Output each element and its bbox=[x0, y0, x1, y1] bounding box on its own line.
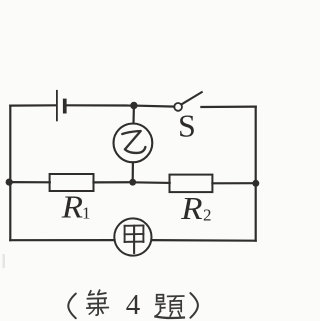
wire battery to node A bbox=[67, 104, 134, 106]
svg-text:S: S bbox=[178, 108, 196, 144]
caption: fullwidth left parenthesis bbox=[68, 294, 76, 319]
battery B1 positive plate bbox=[56, 91, 58, 121]
svg-text:1: 1 bbox=[82, 204, 91, 223]
wire meter Yi to center node bbox=[132, 162, 134, 182]
wire bottom right segment bbox=[152, 239, 256, 242]
switch S lever (open) bbox=[181, 92, 201, 104]
wire R2 to right dot bbox=[212, 182, 255, 184]
wire node A to switch bbox=[134, 106, 174, 107]
wire top left segment bbox=[10, 104, 56, 106]
switch S pivot circle bbox=[174, 103, 182, 111]
svg-text:4: 4 bbox=[126, 289, 141, 321]
node B junction dot (left) bbox=[6, 179, 13, 186]
wire node A down to meter Yi bbox=[132, 106, 135, 124]
caption: hanzi Di (第) bbox=[87, 290, 108, 315]
resistor R2 body bbox=[170, 175, 213, 193]
wire middle: left dot to R1 bbox=[9, 181, 50, 183]
paper smudge left edge bbox=[3, 254, 5, 268]
resistor R1 body bbox=[50, 174, 94, 191]
wire right vertical bbox=[255, 107, 257, 241]
meter M1 label: hanzi Jia (甲) bbox=[125, 226, 144, 253]
svg-text:R: R bbox=[180, 191, 202, 226]
meter M2 label: hanzi Yi (乙) bbox=[122, 131, 145, 153]
caption: fullwidth right parenthesis bbox=[190, 293, 198, 318]
wire center node to R2 bbox=[133, 181, 170, 184]
svg-text:2: 2 bbox=[203, 206, 212, 225]
meter M2 (Yi) circle bbox=[113, 123, 152, 162]
node D junction dot (right) bbox=[252, 180, 259, 187]
meter M1 (Jia) circle bbox=[114, 218, 151, 255]
battery B1 negative plate bbox=[63, 99, 67, 114]
svg-text:R: R bbox=[61, 190, 83, 225]
node C junction dot (center) bbox=[129, 179, 136, 186]
wire R1 to center node bbox=[94, 181, 133, 183]
wire left vertical bbox=[9, 106, 11, 241]
wire switch fixed contact to top-right corner bbox=[201, 105, 255, 108]
caption: hanzi Ti (题) bbox=[155, 295, 184, 318]
node A junction dot bbox=[130, 102, 137, 109]
wire bottom left segment bbox=[10, 239, 114, 241]
